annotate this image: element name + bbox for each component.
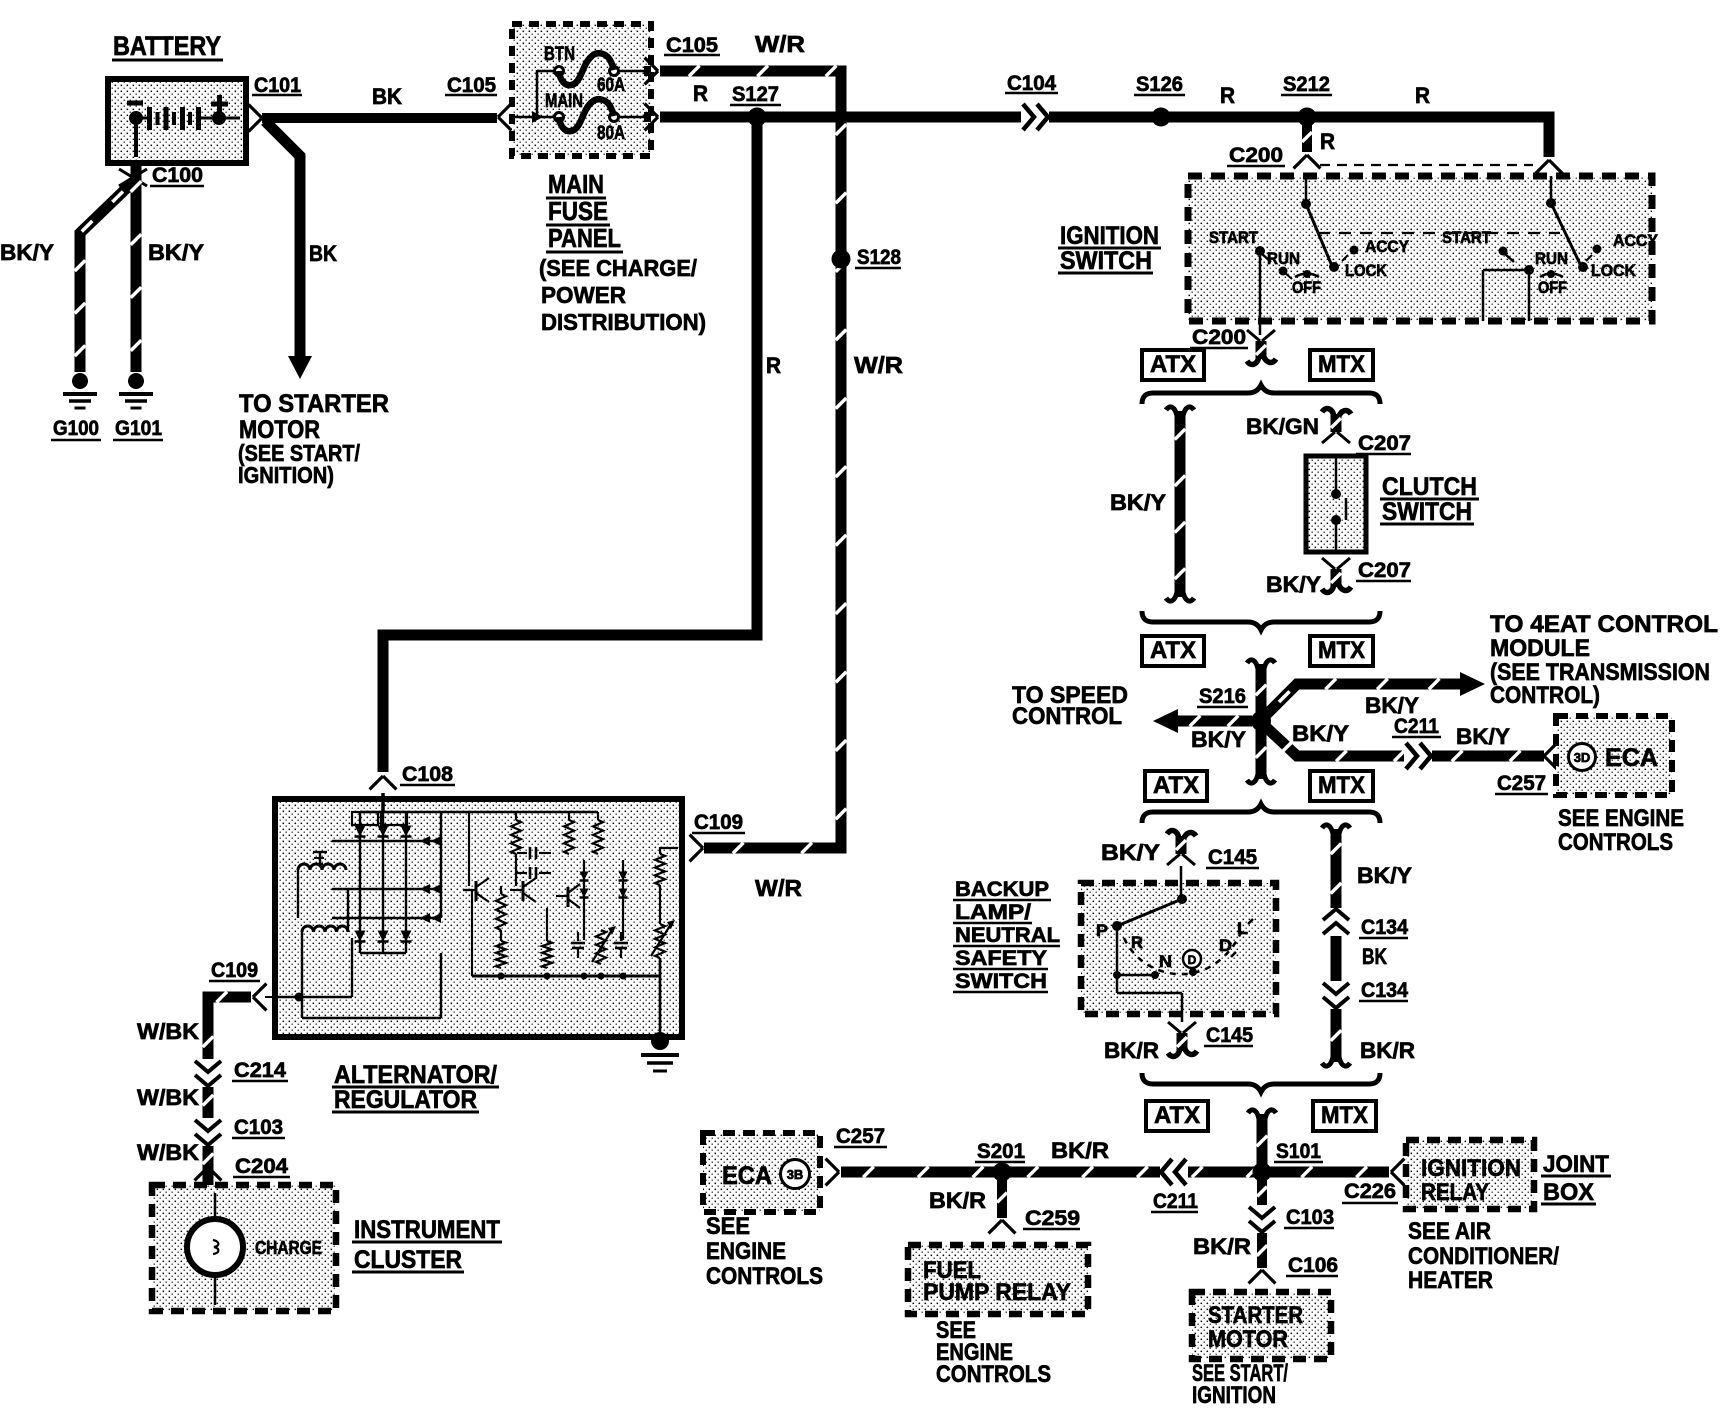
contact ACCY right	[1586, 245, 1602, 262]
connector C226 label	[1342, 1180, 1398, 1203]
svg-text:S127: S127	[732, 83, 779, 106]
svg-text:C211: C211	[1153, 1190, 1198, 1213]
svg-text:OFF: OFF	[1538, 278, 1567, 297]
wire R down from S127	[383, 122, 757, 772]
wire BK/Y right column upper	[1331, 829, 1342, 908]
label R (after fuse)	[693, 81, 708, 106]
svg-text:ECA: ECA	[722, 1162, 772, 1190]
label L	[1237, 919, 1248, 938]
brace row2	[1142, 611, 1380, 630]
svg-text:DISTRIBUTION): DISTRIBUTION)	[541, 309, 706, 335]
svg-text:RELAY: RELAY	[1421, 1179, 1489, 1206]
connector C105 fork (R out)	[645, 104, 658, 131]
svg-text:BK/Y: BK/Y	[1357, 863, 1412, 888]
stub BK/R below S101	[1257, 1177, 1267, 1206]
label BK/Y column	[1110, 490, 1166, 515]
connector C207 label lower	[1356, 559, 1411, 582]
hook bottom BK column	[1322, 1057, 1350, 1066]
tag ATX row1	[1142, 350, 1204, 380]
svg-text:BK/R: BK/R	[1360, 1038, 1415, 1063]
connector C214 label	[232, 1059, 288, 1082]
svg-text:CONTROL: CONTROL	[1012, 703, 1122, 730]
label ECA (left)	[722, 1162, 772, 1190]
svg-text:C109: C109	[211, 959, 258, 982]
svg-text:SWITCH: SWITCH	[1060, 247, 1152, 275]
wire from START left down	[1259, 256, 1262, 321]
stub BK/R to C259	[997, 1177, 1007, 1218]
connector C226 fork	[1391, 1159, 1404, 1186]
label S128	[855, 246, 901, 269]
svg-text:60A: 60A	[597, 75, 625, 96]
splice S216	[1251, 711, 1271, 731]
label BK/R (C145)	[1104, 1038, 1159, 1063]
svg-text:CONDITIONER/: CONDITIONER/	[1408, 1243, 1559, 1270]
svg-text:C103: C103	[234, 1116, 283, 1139]
svg-text:BK/Y: BK/Y	[0, 240, 54, 265]
label BK/R (right column)	[1360, 1038, 1415, 1063]
connector C103 label (cluster)	[232, 1116, 285, 1139]
backup switch title	[953, 878, 1060, 993]
joint box title	[1541, 1151, 1611, 1206]
label G101	[113, 417, 163, 440]
label BK/GN	[1246, 414, 1319, 439]
svg-text:P: P	[1096, 921, 1108, 940]
label MAIN (fuse)	[545, 91, 583, 112]
connector C109 fork (right)	[690, 835, 703, 862]
svg-text:C200: C200	[1192, 326, 1246, 349]
label BK/R (C259)	[929, 1188, 986, 1213]
tag ATX row4	[1146, 1101, 1208, 1131]
svg-text:R: R	[766, 353, 781, 378]
connector C108 fork	[370, 776, 397, 789]
wire ign switch to C200	[1259, 321, 1262, 335]
dashed link C200	[1320, 164, 1533, 166]
label BK/R (starter)	[1193, 1234, 1251, 1259]
svg-text:STARTER: STARTER	[1208, 1302, 1303, 1329]
svg-text:RUN: RUN	[1267, 249, 1300, 268]
svg-text:D: D	[1188, 953, 1197, 967]
svg-text:R: R	[1131, 933, 1143, 952]
battery title	[112, 31, 223, 61]
svg-text:SWITCH: SWITCH	[1382, 498, 1472, 526]
connector C200 fork (right)	[1536, 160, 1563, 173]
svg-text:G100: G100	[53, 417, 99, 440]
connector C134 label lower	[1359, 979, 1408, 1002]
svg-text:CLUSTER: CLUSTER	[354, 1246, 462, 1274]
svg-text:C211: C211	[1394, 715, 1439, 738]
instrument cluster title	[352, 1216, 502, 1274]
svg-text:MTX: MTX	[1318, 637, 1365, 664]
connector C200 label (bottom)	[1190, 326, 1248, 349]
hook bottom S216 wire	[1247, 774, 1275, 783]
svg-text:BK/Y: BK/Y	[148, 240, 204, 265]
splice S212	[1298, 108, 1317, 127]
svg-text:BOX: BOX	[1543, 1179, 1594, 1206]
svg-text:SAFETY: SAFETY	[955, 947, 1047, 970]
connector C145 label lower	[1204, 1024, 1253, 1047]
svg-text:CLUTCH: CLUTCH	[1382, 473, 1477, 501]
ignition switch title	[1058, 222, 1161, 275]
label START left	[1209, 228, 1259, 247]
svg-text:3D: 3D	[1574, 750, 1591, 765]
alternator box	[275, 799, 682, 1037]
connector C105 fork (W/R out)	[645, 58, 658, 85]
svg-text:C105: C105	[666, 34, 718, 57]
svg-text:CONTROLS: CONTROLS	[706, 1263, 823, 1290]
svg-text:C226: C226	[1344, 1180, 1396, 1203]
label BK/Y (4EAT)	[1365, 693, 1419, 718]
svg-text:REGULATOR: REGULATOR	[334, 1086, 477, 1114]
connector C105 fork (left)	[498, 104, 511, 131]
charge indicator bulb	[187, 1193, 243, 1305]
svg-text:(SEE CHARGE/: (SEE CHARGE/	[539, 255, 698, 281]
wire to 4EAT module	[1266, 679, 1460, 715]
clutch switch title	[1380, 473, 1479, 526]
tag ATX row2	[1142, 636, 1204, 666]
tag MTX row2	[1310, 636, 1373, 666]
label N	[1159, 952, 1172, 971]
svg-text:C104: C104	[1007, 72, 1056, 95]
svg-text:HEATER: HEATER	[1408, 1267, 1493, 1294]
svg-text:CONTROLS: CONTROLS	[936, 1361, 1051, 1388]
label 80A	[597, 123, 625, 144]
label OFF right	[1538, 278, 1567, 297]
label W/BK 3	[137, 1140, 199, 1165]
connector C100 X	[119, 169, 147, 186]
svg-text:LOCK: LOCK	[1591, 261, 1637, 280]
connector C108 label	[400, 763, 455, 786]
svg-text:BK: BK	[372, 84, 402, 109]
label CHARGE	[255, 1238, 322, 1258]
svg-text:BK: BK	[309, 241, 337, 266]
label R (vertical)	[766, 353, 781, 378]
svg-text:C204: C204	[235, 1155, 288, 1178]
svg-text:BK/R: BK/R	[1104, 1038, 1159, 1063]
text TO STARTER MOTOR	[238, 390, 389, 488]
label OFF left	[1292, 278, 1321, 297]
svg-text:C257: C257	[1497, 772, 1546, 795]
svg-text:BK/Y: BK/Y	[1110, 490, 1166, 515]
connector C105 label (left)	[445, 74, 497, 97]
text SEE START IGNITION	[1192, 1360, 1288, 1408]
ground G101	[119, 373, 153, 408]
svg-text:MTX: MTX	[1321, 1102, 1368, 1129]
wire into S101	[1257, 1114, 1268, 1168]
splice S201	[993, 1163, 1012, 1182]
connector C103 chevrons (S101)	[1249, 1205, 1275, 1233]
label BK/Y left	[0, 240, 54, 265]
wire into S216	[1256, 664, 1267, 716]
svg-text:MAIN: MAIN	[545, 91, 583, 112]
connector C207 upper	[1322, 409, 1351, 443]
svg-text:MOTOR: MOTOR	[1208, 1326, 1288, 1353]
svg-text:S101: S101	[1276, 1140, 1321, 1163]
battery plus sign	[211, 95, 228, 112]
svg-text:ATX: ATX	[1153, 772, 1199, 799]
fuse panel internal link	[514, 70, 556, 123]
contact OFF right	[1540, 270, 1563, 278]
hook top S101 wire	[1248, 1110, 1276, 1119]
tag MTX row4	[1313, 1101, 1376, 1131]
arrowhead 4EAT	[1460, 672, 1485, 696]
connector C211 chevrons (right)	[1404, 743, 1432, 769]
svg-text:W/BK: W/BK	[137, 1019, 199, 1044]
svg-text:W/R: W/R	[854, 352, 903, 378]
label P	[1096, 921, 1108, 940]
svg-text:BATTERY: BATTERY	[113, 31, 221, 61]
connector C106 label	[1286, 1254, 1338, 1277]
clutch switch contacts	[1331, 458, 1346, 550]
svg-text:BK/R: BK/R	[1051, 1138, 1109, 1163]
stub R below S212	[1302, 122, 1312, 152]
connector C109 label (right)	[692, 811, 745, 834]
connector C105 label (top)	[664, 34, 720, 57]
svg-text:ACCY: ACCY	[1613, 231, 1659, 250]
svg-text:BK/Y: BK/Y	[1456, 724, 1510, 749]
connector C101 fork	[249, 105, 262, 132]
label S201	[975, 1140, 1025, 1163]
ECA 3D pin circle	[1569, 744, 1596, 771]
alternator ground	[641, 1032, 679, 1071]
svg-text:FUSE: FUSE	[548, 196, 608, 226]
arrowhead speed control	[1153, 709, 1178, 733]
connector C211 chevrons (bottom)	[1160, 1159, 1188, 1185]
contact RUN left	[1279, 267, 1293, 280]
svg-text:MTX: MTX	[1318, 772, 1365, 799]
svg-text:R: R	[1320, 129, 1335, 154]
svg-text:C200: C200	[1229, 144, 1283, 167]
starter motor title	[1208, 1302, 1303, 1353]
ignition relay box	[1406, 1140, 1534, 1209]
wire BK battery to fuse panel	[262, 113, 497, 123]
svg-text:ALTERNATOR/: ALTERNATOR/	[334, 1061, 497, 1089]
connector C109 label (left)	[209, 959, 260, 982]
svg-text:TO STARTER: TO STARTER	[239, 390, 389, 418]
contact ACCY left	[1342, 246, 1359, 262]
label R (mid)	[1220, 83, 1235, 108]
svg-text:S216: S216	[1199, 685, 1246, 708]
svg-text:TO 4EAT CONTROL: TO 4EAT CONTROL	[1490, 611, 1718, 638]
hook top S216 wire	[1247, 660, 1275, 669]
svg-text:PUMP RELAY: PUMP RELAY	[923, 1279, 1071, 1306]
label BTN	[544, 44, 575, 65]
svg-text:SWITCH: SWITCH	[955, 970, 1047, 993]
contact RUN right	[1524, 265, 1534, 275]
main fuse panel title	[546, 169, 623, 253]
label ECA (right)	[1605, 744, 1658, 772]
svg-text:BK/Y: BK/Y	[1266, 572, 1321, 597]
svg-text:BK/GN: BK/GN	[1246, 414, 1319, 439]
connector C259 label	[1023, 1207, 1080, 1230]
contact START right	[1499, 247, 1515, 263]
fuse MAIN 80A	[555, 99, 652, 131]
svg-text:C105: C105	[447, 74, 496, 97]
label BK/R (bottom run)	[1051, 1138, 1109, 1163]
connector C200 (bottom)	[1247, 330, 1276, 364]
label W/R (bottom)	[755, 875, 802, 901]
svg-text:BK/Y: BK/Y	[1191, 727, 1246, 752]
label BK/Y (speed)	[1191, 727, 1246, 752]
svg-text:BK/Y: BK/Y	[1292, 721, 1349, 746]
svg-text:SEE: SEE	[706, 1213, 750, 1240]
connector C101 label	[252, 74, 302, 97]
label G100	[51, 417, 101, 440]
splice S126	[1152, 108, 1171, 127]
connector C211 label (bottom)	[1151, 1190, 1198, 1213]
label W/R (top)	[755, 31, 805, 57]
svg-text:C106: C106	[1288, 1254, 1338, 1277]
label BK/Y (right column)	[1357, 863, 1412, 888]
connector C103 label (S101)	[1284, 1206, 1334, 1229]
svg-text:INSTRUMENT: INSTRUMENT	[354, 1216, 500, 1244]
connector C104 label	[1005, 72, 1058, 95]
label 60A	[597, 75, 625, 96]
wire BK/Y left to G100	[75, 182, 133, 372]
label LOCK right	[1591, 261, 1637, 280]
label BK/Y (left of C211)	[1292, 721, 1349, 746]
text SEE ENGINE CONTROLS (right)	[1558, 805, 1684, 856]
starter motor box	[1192, 1292, 1331, 1359]
connector C104 chevrons	[1021, 104, 1049, 130]
label W/BK 1	[137, 1019, 199, 1044]
svg-text:C145: C145	[1208, 846, 1257, 869]
svg-text:G101: G101	[115, 417, 162, 440]
fuse BTN 60A	[555, 53, 652, 85]
brace row1	[1142, 385, 1380, 404]
svg-text:MODULE: MODULE	[1490, 635, 1590, 662]
backup lamp switch box	[1081, 883, 1276, 1014]
connector C207 lower	[1322, 558, 1351, 592]
wire S216 down	[1256, 726, 1267, 779]
connector C145 label upper	[1206, 846, 1259, 869]
connector C211 label (right)	[1392, 715, 1441, 738]
ignition switch left wiper	[1301, 176, 1332, 266]
ground G100	[63, 373, 97, 408]
splice S101	[1253, 1163, 1272, 1182]
svg-text:ENGINE: ENGINE	[706, 1238, 786, 1265]
connector C145 lower	[1168, 1022, 1197, 1056]
label ACCY left	[1365, 237, 1410, 256]
svg-text:BK: BK	[1362, 944, 1387, 969]
svg-text:C145: C145	[1206, 1024, 1253, 1047]
contact LOCK right	[1578, 262, 1588, 272]
connector C200 label (top)	[1227, 144, 1285, 167]
brace row4	[1142, 1073, 1380, 1092]
svg-text:ATX: ATX	[1154, 1102, 1200, 1129]
battery cell symbol	[129, 107, 240, 157]
alternator internal circuit	[277, 793, 678, 1037]
connector C207 label upper	[1356, 432, 1411, 455]
svg-text:C108: C108	[402, 763, 453, 786]
splice S128	[832, 250, 851, 269]
text SEE ENGINE CONTROLS (ECA left)	[706, 1213, 823, 1290]
splice S127	[748, 108, 767, 127]
svg-text:NEUTRAL: NEUTRAL	[955, 924, 1060, 947]
label S212	[1281, 73, 1332, 96]
connector C134 upper chevrons	[1323, 908, 1349, 936]
svg-text:C101: C101	[254, 74, 301, 97]
text TO SPEED CONTROL	[1012, 682, 1128, 730]
svg-text:3B: 3B	[787, 1167, 804, 1182]
ignition relay title	[1421, 1155, 1521, 1206]
wire BK/R right column lower	[1331, 1009, 1342, 1062]
label R (stub)	[1320, 129, 1335, 154]
svg-text:80A: 80A	[597, 123, 625, 144]
wire BK/Y column	[1175, 411, 1186, 597]
svg-text:C214: C214	[234, 1059, 286, 1082]
label R (right)	[1415, 83, 1430, 108]
tag MTX row1	[1310, 350, 1373, 380]
ignition switch right wiper	[1546, 176, 1581, 266]
label BK/Y right	[148, 240, 204, 265]
connector C214 chevrons	[195, 1059, 221, 1087]
svg-text:IGNITION: IGNITION	[1421, 1155, 1521, 1182]
fuel pump relay title	[923, 1257, 1071, 1306]
svg-text:W/BK: W/BK	[137, 1085, 199, 1110]
label LOCK left	[1345, 261, 1388, 280]
wire BK/R to C106	[1257, 1233, 1268, 1268]
ignition gang dashed line	[1318, 232, 1560, 234]
label BK/Y (right of C211)	[1456, 724, 1510, 749]
text TO 4EAT CONTROL MODULE	[1490, 611, 1718, 709]
label START right	[1442, 228, 1492, 247]
wire BK right column	[1331, 936, 1342, 981]
svg-text:BK/R: BK/R	[929, 1188, 986, 1213]
svg-text:MAIN: MAIN	[548, 169, 604, 199]
svg-text:ECA: ECA	[1605, 744, 1658, 772]
label S101	[1274, 1140, 1323, 1163]
svg-text:BTN: BTN	[544, 44, 575, 65]
label RUN right	[1535, 249, 1568, 268]
label BK/Y (C207)	[1266, 572, 1321, 597]
svg-text:N: N	[1159, 952, 1172, 971]
label S127	[730, 83, 781, 106]
svg-text:POWER: POWER	[541, 282, 626, 308]
label W/BK 2	[137, 1085, 199, 1110]
svg-text:C134: C134	[1361, 979, 1408, 1002]
connector C145 upper	[1167, 831, 1196, 865]
label BK	[372, 84, 402, 109]
label BK/Y (C145)	[1101, 840, 1160, 865]
connector C103 chevrons (cluster)	[195, 1118, 221, 1146]
label S216	[1197, 685, 1248, 708]
svg-text:CONTROL): CONTROL)	[1490, 682, 1600, 709]
battery B1 box	[108, 79, 246, 163]
connector C257 label (left)	[834, 1125, 887, 1148]
svg-text:S212: S212	[1283, 73, 1330, 96]
svg-text:BK/R: BK/R	[1193, 1234, 1251, 1259]
wire BK to starter motor	[265, 121, 300, 358]
fuel pump relay box	[908, 1245, 1088, 1314]
svg-text:W/BK: W/BK	[137, 1140, 199, 1165]
svg-text:L: L	[1237, 919, 1248, 938]
svg-text:R: R	[1415, 83, 1430, 108]
svg-text:C100: C100	[152, 164, 203, 187]
svg-text:S201: S201	[977, 1140, 1025, 1163]
svg-text:C103: C103	[1286, 1206, 1334, 1229]
wire R main run	[660, 117, 1549, 157]
label W/R (vertical)	[854, 352, 903, 378]
hook top BK column	[1322, 825, 1350, 834]
svg-text:CONTROLS: CONTROLS	[1558, 829, 1673, 856]
svg-text:START: START	[1209, 228, 1259, 247]
connector C100 label	[150, 164, 204, 187]
wire W/R fuse to S128 column	[660, 66, 846, 854]
svg-text:START: START	[1442, 228, 1492, 247]
ignition switch box	[1188, 176, 1652, 321]
wire BK/Y right to G101	[131, 160, 142, 372]
clutch switch box	[1306, 456, 1366, 552]
